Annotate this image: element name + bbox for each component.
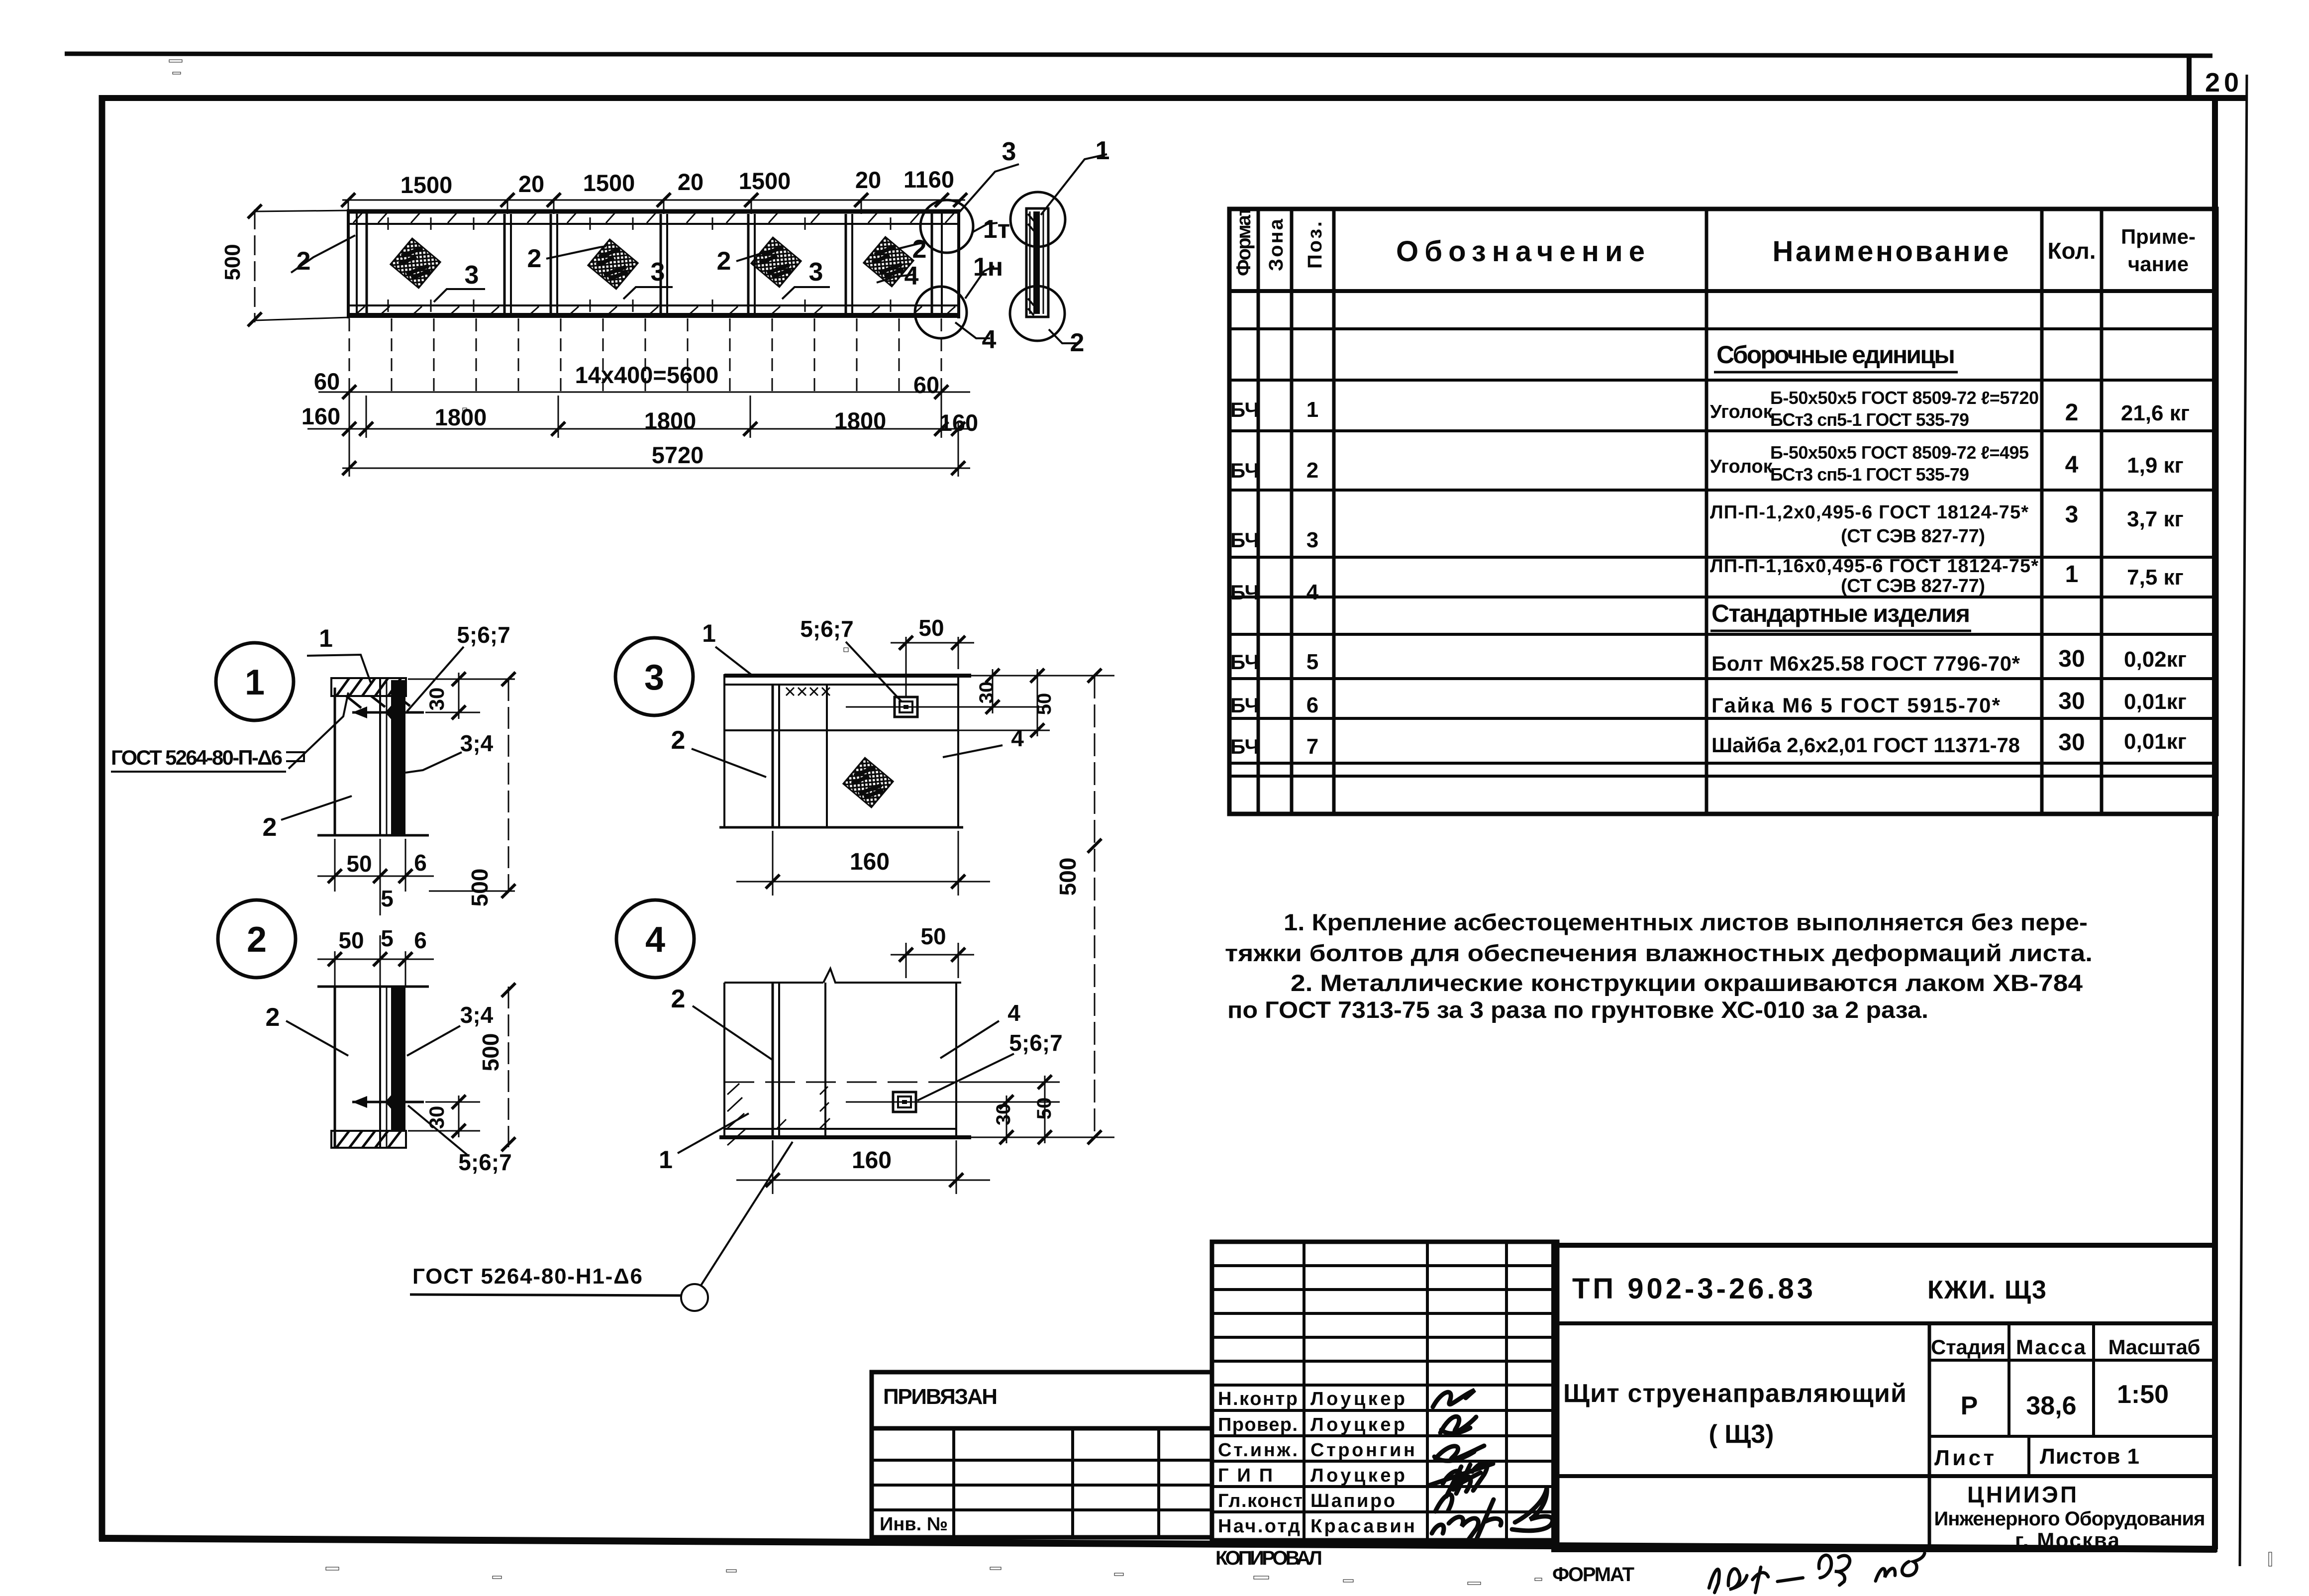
handwritten archive number [1709, 1553, 1924, 1593]
svg-text:60: 60 [314, 368, 340, 395]
dim line 14x400=5600 [318, 392, 970, 393]
svg-text:2: 2 [266, 1003, 280, 1032]
svg-text:5;6;7: 5;6;7 [457, 622, 510, 648]
divider D4 [747, 214, 750, 314]
svg-text:5720: 5720 [652, 442, 704, 468]
svg-text:Листов 1: Листов 1 [2040, 1444, 2139, 1469]
svg-text:1500: 1500 [583, 170, 635, 196]
leader 2 to section bottom [1049, 329, 1077, 343]
dim 500 right [502, 983, 515, 1151]
svg-text:г. Москва: г. Москва [2015, 1528, 2120, 1552]
svg-text:30: 30 [425, 1106, 448, 1129]
svg-text:Инв. №: Инв. № [880, 1514, 948, 1535]
dim 30 bolt to bottom [408, 1095, 480, 1138]
svg-text:160: 160 [852, 1147, 892, 1174]
svg-text:2: 2 [717, 247, 731, 276]
svg-text:Обозначение: Обозначение [1396, 235, 1645, 268]
svg-text:Гайка М6 5 ГОСТ 5915-70*: Гайка М6 5 ГОСТ 5915-70* [1711, 694, 2001, 717]
svg-text:Стандартные изделия: Стандартные изделия [1711, 599, 1970, 627]
svg-text:2: 2 [1070, 328, 1085, 357]
leader 2 [286, 1021, 348, 1056]
svg-text:20: 20 [678, 169, 703, 195]
row lines [1229, 329, 2216, 776]
leader 4 [943, 745, 1003, 757]
svg-text:1: 1 [319, 624, 333, 652]
dim texts 1500/20 row [401, 166, 954, 198]
svg-text:Р: Р [1961, 1392, 1978, 1420]
svg-text:ЛП-П-1,2х0,495-6 ГОСТ 18124-75: ЛП-П-1,2х0,495-6 ГОСТ 18124-75* [1710, 502, 2028, 523]
column lines [1258, 209, 2102, 814]
500 tall dim for details 3-4 [1088, 669, 1102, 1144]
leader 2 [281, 796, 352, 820]
svg-text:чание: чание [2128, 252, 2189, 276]
svg-text:Лоуцкер: Лоуцкер [1310, 1414, 1405, 1435]
svg-text:1160: 1160 [904, 166, 954, 193]
svg-text:20: 20 [855, 167, 881, 193]
svg-text:1800: 1800 [834, 407, 887, 434]
svg-text:ЛП-П-1,16х0,495-6 ГОСТ 18124-7: ЛП-П-1,16х0,495-6 ГОСТ 18124-75* [1710, 556, 2038, 577]
detail circle 4 [616, 900, 694, 978]
weld xxx marks [786, 688, 830, 696]
svg-text:Лист: Лист [1934, 1446, 1994, 1470]
svg-text:500: 500 [467, 869, 493, 907]
svg-text:БЧ: БЧ [1230, 459, 1259, 482]
plan left/right edges [347, 209, 350, 318]
dim 500 right [429, 672, 515, 898]
svg-text:Сборочные единицы: Сборочные единицы [1716, 341, 1955, 369]
svg-text:Инженерного Оборудования: Инженерного Оборудования [1934, 1508, 2206, 1530]
divider D1 [503, 214, 506, 314]
svg-text:3: 3 [1306, 528, 1318, 552]
dim 50/5/6 top [317, 935, 434, 987]
svg-text:50: 50 [338, 927, 364, 953]
horizontal dashed joint [724, 1082, 956, 1083]
svg-text:7,5 кг: 7,5 кг [2127, 565, 2184, 590]
svg-text:3: 3 [2065, 501, 2079, 528]
header bottom line [1229, 289, 2216, 293]
top break line [317, 986, 429, 988]
leader 3;4 [405, 752, 462, 773]
svg-text:2: 2 [247, 920, 267, 960]
svg-text:14x400=5600: 14x400=5600 [575, 362, 719, 388]
asbestos sheet section [379, 987, 381, 1147]
leader 5;6;7 [408, 1105, 468, 1155]
svg-text:160: 160 [301, 403, 340, 429]
right end post [931, 213, 933, 315]
hatch patch [843, 758, 893, 807]
leader 2 left [291, 235, 355, 273]
svg-text:0,01кг: 0,01кг [2124, 690, 2187, 714]
signatures squiggles [1428, 1390, 1553, 1541]
dims 30/50 right [920, 1075, 1114, 1144]
svg-text:500: 500 [1055, 858, 1081, 896]
svg-text:50: 50 [920, 923, 946, 949]
horizontal joint line [724, 729, 958, 731]
svg-text:Болт М6х25.58 ГОСТ 7796-70*: Болт М6х25.58 ГОСТ 7796-70* [1711, 652, 2020, 675]
стадия масса масштаб grid [1929, 1323, 2215, 1476]
leader 2 [693, 1006, 772, 1060]
svg-text:4: 4 [645, 920, 665, 960]
svg-text:тяжки болтов для обеспечения в: тяжки болтов для обеспечения влажностных… [1225, 940, 2093, 966]
leader 3 bay2 [623, 287, 673, 299]
angle bottom flange (hatched) [331, 1131, 406, 1148]
top scan line [65, 54, 2212, 56]
svg-text:Лоуцкер: Лоуцкер [1310, 1389, 1405, 1409]
leader 1 [678, 1113, 749, 1153]
svg-text:БЧ: БЧ [1230, 735, 1259, 758]
leader 4 sheet right [877, 275, 913, 283]
svg-text:6: 6 [414, 850, 427, 876]
svg-text:30: 30 [976, 682, 998, 704]
leader 1t [973, 223, 998, 232]
svg-text:1н: 1н [973, 253, 1003, 282]
svg-text:(СТ СЭВ 827-77): (СТ СЭВ 827-77) [1841, 576, 1985, 597]
inner angle vertical double [772, 983, 774, 1136]
svg-text:7: 7 [1306, 734, 1318, 759]
svg-text:ФОРМАТ: ФОРМАТ [1552, 1564, 1634, 1586]
svg-text:21,6 кг: 21,6 кг [2121, 401, 2190, 425]
svg-text:Шапиро: Шапиро [1310, 1491, 1395, 1511]
svg-text:Щит струенаправляющий: Щит струенаправляющий [1563, 1379, 1907, 1408]
divider D2 [550, 214, 552, 314]
svg-text:БЧ: БЧ [1230, 398, 1259, 421]
panel face outline [724, 674, 971, 678]
detail circle 1t on plan [920, 200, 973, 253]
leader 3 bay3 [782, 287, 830, 299]
svg-text:Уголок: Уголок [1710, 401, 1773, 422]
svg-text:50: 50 [346, 851, 372, 877]
svg-text:ГОСТ 5264-80-Н1-Δ6: ГОСТ 5264-80-Н1-Δ6 [412, 1264, 642, 1289]
detail circle 3 [615, 638, 693, 715]
leader 2 bay2 zone [546, 246, 606, 259]
dim 50/5/6 bottom [317, 839, 434, 915]
svg-text:2: 2 [263, 813, 277, 842]
svg-text:3: 3 [465, 261, 479, 290]
angle vertical leg thin line [334, 987, 336, 1147]
svg-text:2: 2 [1306, 458, 1318, 483]
svg-text:Нач.отд: Нач.отд [1218, 1516, 1300, 1537]
svg-text:Уголок: Уголок [1710, 456, 1773, 477]
svg-text:30: 30 [993, 1103, 1014, 1126]
svg-text:3: 3 [651, 258, 665, 287]
hatch patch bay2 [588, 239, 638, 289]
dim 50 top [891, 943, 974, 978]
svg-text:Масса: Масса [2016, 1335, 2086, 1359]
leader 1n [965, 266, 994, 299]
svg-text:3;4: 3;4 [460, 1002, 494, 1028]
svg-text:КОПИРОВАЛ: КОПИРОВАЛ [1215, 1547, 1322, 1569]
svg-text:50: 50 [918, 615, 944, 641]
dim 30 (top to bolt) [408, 672, 515, 719]
svg-text:1. Крепление асбестоцементных: 1. Крепление асбестоцементных листов вып… [1284, 909, 2088, 935]
svg-text:30: 30 [425, 688, 448, 711]
hatch patch bay3 [751, 237, 801, 287]
svg-text:5;6;7: 5;6;7 [800, 616, 853, 642]
flange joint ticks top/bottom [388, 217, 891, 312]
table outer [1229, 209, 2216, 814]
bolt M6 [352, 1101, 424, 1103]
svg-text:1:50: 1:50 [2117, 1380, 2169, 1409]
dim 50 top (bolt offset) [891, 636, 974, 697]
svg-text:ЦНИИЭП: ЦНИИЭП [1967, 1482, 2077, 1507]
svg-text:ТП 902-3-26.83: ТП 902-3-26.83 [1572, 1273, 1816, 1305]
leader 4 [940, 1021, 999, 1058]
angle top flange (hatched) [331, 678, 410, 708]
weld hatch bottom-left cell [727, 1084, 830, 1145]
leader 4 bottom [955, 322, 990, 338]
leader 3 bay1 [434, 289, 485, 302]
svg-text:2: 2 [527, 244, 542, 273]
plan bottom edges [347, 304, 960, 306]
central signature grid [1212, 1242, 1557, 1540]
svg-text:1: 1 [659, 1146, 673, 1174]
svg-text:Лоуцкер: Лоуцкер [1310, 1465, 1405, 1486]
svg-text:3;4: 3;4 [460, 730, 494, 756]
divider D3 [660, 214, 662, 314]
leader 5;6;7 [407, 647, 464, 711]
svg-text:1: 1 [2065, 561, 2079, 588]
svg-text:1т: 1т [983, 215, 1010, 244]
svg-text:1: 1 [702, 619, 716, 647]
svg-text:0,02кг: 0,02кг [2124, 647, 2187, 672]
svg-text:1800: 1800 [435, 404, 487, 430]
svg-text:1: 1 [1306, 398, 1318, 422]
svg-text:Гл.конст: Гл.конст [1218, 1491, 1303, 1511]
detail circle 1 [216, 643, 294, 720]
left 500 dim [248, 204, 348, 326]
svg-text:4: 4 [982, 325, 997, 354]
svg-text:4: 4 [1011, 725, 1024, 751]
weld GOST label N1 with circle [410, 1142, 793, 1311]
steel strip black [391, 680, 405, 835]
svg-text:6: 6 [414, 927, 427, 953]
svg-text:38,6: 38,6 [2026, 1392, 2076, 1420]
svg-text:Шайба 2,6х2,01 ГОСТ 11371-78: Шайба 2,6х2,01 ГОСТ 11371-78 [1711, 733, 2020, 757]
svg-text:ПРИВЯЗАН: ПРИВЯЗАН [883, 1385, 998, 1409]
svg-text:КЖИ. Щ3: КЖИ. Щ3 [1927, 1276, 2047, 1304]
svg-text:БЧ: БЧ [1230, 694, 1259, 717]
svg-text:Н.контр: Н.контр [1218, 1389, 1298, 1409]
left: привязан box [872, 1372, 1212, 1537]
svg-text:Зона: Зона [1265, 218, 1287, 271]
svg-text:2. Металлические конструкции о: 2. Металлические конструкции окрашиваютс… [1291, 970, 2083, 996]
bolt M6 [352, 711, 424, 714]
leader 5;6;7 [846, 642, 902, 701]
detail circle 1n on plan [915, 287, 967, 338]
svg-text:Поз.: Поз. [1304, 221, 1326, 269]
svg-text:3,7 кг: 3,7 кг [2127, 507, 2184, 531]
svg-text:Стронгин: Стронгин [1310, 1440, 1415, 1461]
top dim line [342, 199, 965, 201]
bolt symbol [895, 697, 917, 717]
svg-text:1800: 1800 [644, 407, 697, 434]
dim 160 bottom [736, 831, 990, 896]
angle vertical leg thin line [334, 688, 336, 835]
svg-text:ГИП: ГИП [1218, 1465, 1273, 1486]
svg-text:30: 30 [2058, 646, 2085, 672]
svg-text:3: 3 [1002, 137, 1016, 166]
left grid columns [872, 1428, 1212, 1537]
svg-text:4: 4 [2065, 452, 2079, 478]
svg-text:2: 2 [671, 726, 686, 755]
svg-text:Приме-: Приме- [2121, 225, 2196, 248]
leader 1 [715, 647, 751, 675]
svg-text:50: 50 [1033, 1097, 1055, 1120]
bottom break line [317, 834, 429, 837]
plan outer: top edge [347, 209, 960, 214]
svg-text:4: 4 [1306, 580, 1319, 604]
svg-text:БСт3 сп5-1 ГОСТ 535-79: БСт3 сп5-1 ГОСТ 535-79 [1770, 409, 1969, 430]
leader 1 [307, 655, 371, 683]
svg-text:3: 3 [644, 658, 664, 698]
leader 3;4 [407, 1026, 460, 1056]
svg-text:30: 30 [2058, 729, 2085, 756]
svg-text:Б-50х50х5 ГОСТ 8509-72 ℓ=495: Б-50х50х5 ГОСТ 8509-72 ℓ=495 [1770, 442, 2029, 463]
svg-text:5: 5 [381, 925, 394, 951]
svg-text:5;6;7: 5;6;7 [458, 1149, 511, 1175]
svg-text:1500: 1500 [401, 172, 453, 198]
svg-text:4: 4 [1007, 1000, 1020, 1026]
svg-text:5: 5 [1306, 650, 1318, 674]
dim line 160/1800 [307, 428, 973, 430]
svg-text:БЧ: БЧ [1230, 581, 1259, 604]
svg-text:Б-50х50х5 ГОСТ 8509-72 ℓ=5720: Б-50х50х5 ГОСТ 8509-72 ℓ=5720 [1770, 388, 2039, 408]
svg-text:Провер.: Провер. [1218, 1414, 1298, 1435]
svg-text:20: 20 [2205, 68, 2243, 98]
svg-text:Красавин: Красавин [1310, 1516, 1415, 1537]
svg-text:по ГОСТ 7313-75 за 3 раза по г: по ГОСТ 7313-75 за 3 раза по грунтовке Х… [1227, 997, 1928, 1023]
svg-text:2: 2 [297, 247, 311, 276]
svg-text:60: 60 [913, 372, 939, 398]
svg-text:2: 2 [671, 985, 686, 1013]
bolt symbol [893, 1092, 916, 1112]
leader 2 end post [898, 242, 926, 249]
dims 30/50 right [920, 669, 1114, 737]
asbestos sheet section [379, 678, 381, 835]
svg-text:500: 500 [478, 1033, 503, 1072]
svg-text:5: 5 [381, 886, 394, 911]
svg-text:2: 2 [2065, 399, 2079, 426]
dim line 5720 [342, 468, 970, 469]
svg-text:0,01кг: 0,01кг [2124, 729, 2187, 754]
svg-text:Кол.: Кол. [2047, 238, 2096, 264]
svg-text:(СТ СЭВ 827-77): (СТ СЭВ 827-77) [1841, 526, 1985, 547]
divider D5 [845, 214, 847, 314]
svg-text:Формат: Формат [1233, 206, 1255, 276]
svg-text:5;6;7: 5;6;7 [1009, 1030, 1062, 1056]
svg-text:1: 1 [245, 663, 265, 702]
inner angle vertical double [772, 685, 774, 827]
svg-text:1500: 1500 [739, 168, 791, 194]
svg-text:БЧ: БЧ [1230, 528, 1259, 552]
dim 160 bottom [736, 1140, 990, 1194]
hatch patch bay1 [391, 238, 440, 288]
leader 5;6;7 [917, 1054, 1014, 1100]
svg-text:1: 1 [1096, 136, 1110, 165]
svg-text:Наименование: Наименование [1773, 235, 2009, 268]
svg-text:160: 160 [939, 409, 978, 436]
panel face outline [724, 982, 823, 984]
svg-text:Масштаб: Масштаб [2108, 1335, 2201, 1359]
svg-text:160: 160 [850, 849, 890, 875]
right block [1554, 1245, 2215, 1550]
dashed drop lines 14x400 [349, 318, 350, 392]
svg-text:30: 30 [2058, 688, 2085, 714]
svg-text:ГОСТ 5264-80-П-Δ6: ГОСТ 5264-80-П-Δ6 [111, 746, 283, 769]
leader 3 top to circle [958, 164, 1019, 214]
detail circle 2 [218, 900, 296, 978]
svg-text:50: 50 [1033, 693, 1055, 715]
svg-text:20: 20 [518, 171, 544, 197]
svg-text:500: 500 [220, 244, 245, 280]
svg-text:4: 4 [904, 262, 919, 291]
signature names [1218, 1389, 1415, 1537]
left end post [356, 213, 358, 315]
svg-text:Ст.инж.: Ст.инж. [1218, 1440, 1298, 1461]
svg-text:БЧ: БЧ [1230, 650, 1259, 674]
leader 2 [692, 749, 766, 777]
svg-text:( Щ3): ( Щ3) [1709, 1420, 1774, 1449]
svg-text:Стадия: Стадия [1931, 1335, 2006, 1359]
right scan edge line [2240, 75, 2247, 1566]
steel strip black [391, 987, 405, 1131]
leader 2 bay3 zone [736, 248, 782, 261]
page number tick [2187, 56, 2192, 99]
svg-text:БСт3 сп5-1 ГОСТ 535-79: БСт3 сп5-1 ГОСТ 535-79 [1770, 464, 1969, 485]
svg-text:1,9 кг: 1,9 кг [2127, 453, 2184, 478]
svg-text:3: 3 [809, 258, 823, 287]
leader 1 to section [1041, 154, 1107, 215]
svg-text:6: 6 [1306, 693, 1318, 717]
hatch patch bay4 [864, 237, 913, 287]
